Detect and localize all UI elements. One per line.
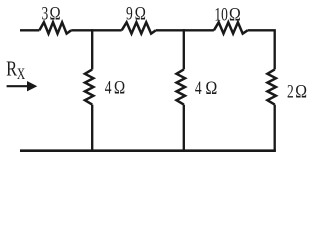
wire R(4) first down to bottom rail	[91, 105, 93, 152]
svg-text:3: 3	[42, 2, 49, 24]
svg-text:R: R	[6, 58, 17, 81]
wire node B to R(10)	[156, 29, 214, 31]
svg-text:4: 4	[195, 77, 202, 99]
resistor 4ohm second zigzag	[177, 69, 186, 104]
resistor 9ohm zigzag	[122, 22, 156, 33]
svg-text:4: 4	[105, 76, 112, 98]
wire R(10) to top-right corner and down	[248, 30, 275, 69]
wire R(2) down to bottom-right corner	[274, 105, 276, 151]
resistor 3ohm zigzag	[39, 22, 71, 33]
svg-text:X: X	[17, 67, 25, 84]
arrow Rx head	[27, 81, 37, 91]
wire top-left terminal to R(3)	[20, 29, 39, 31]
wire node A down to R(4) first	[91, 29, 93, 69]
wire bottom rail	[20, 149, 276, 152]
wire R(3) to node A	[71, 29, 122, 31]
resistor 4ohm first zigzag	[85, 69, 94, 104]
wire R(4) second down to bottom rail	[183, 105, 185, 152]
svg-text:Ω: Ω	[114, 77, 126, 98]
arrow Rx shaft	[7, 85, 30, 87]
svg-text:Ω: Ω	[49, 3, 60, 24]
svg-text:Ω: Ω	[295, 80, 307, 102]
svg-text:Ω: Ω	[229, 3, 241, 25]
svg-text:10: 10	[214, 3, 227, 25]
resistor 10ohm zigzag	[214, 22, 248, 33]
wire node B down to R(4) second	[183, 29, 185, 69]
svg-text:Ω: Ω	[205, 77, 217, 99]
svg-text:Ω: Ω	[135, 3, 147, 24]
svg-text:9: 9	[126, 2, 133, 24]
resistor 2ohm zigzag	[267, 69, 276, 104]
svg-text:2: 2	[287, 80, 294, 102]
